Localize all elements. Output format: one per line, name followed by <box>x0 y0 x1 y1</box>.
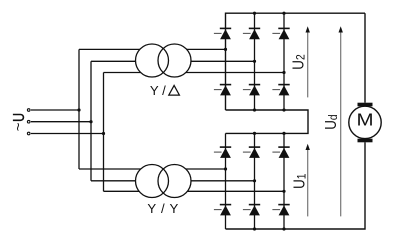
junction dot bb top rail leg3 <box>282 132 285 135</box>
input terminal L3 <box>27 132 30 135</box>
label ~U (AC supply voltage, rotated) <box>10 115 27 132</box>
diode D7 lower bridge leg1 top <box>214 147 231 158</box>
junction dot bb bottom rail leg2 <box>253 227 256 230</box>
junction dot bus2/feed2 <box>89 120 92 123</box>
diode D10 lower bridge leg1 bottom <box>214 205 231 216</box>
wire phase 2 to lower bridge <box>91 180 255 182</box>
junction dot phase2/leg2 lower bridge <box>253 179 256 182</box>
transformer T2 (Y/Y) <box>136 165 192 198</box>
label Y/delta <box>150 83 180 98</box>
junction dot top rail leg2 <box>253 12 256 15</box>
wire bottom rail of upper bridge + jog + top rail of lower bridge <box>226 110 309 133</box>
svg-text:~: ~ <box>10 122 27 131</box>
wire feed L2 <box>31 121 91 123</box>
voltage arrow U2 <box>306 26 310 97</box>
diode D8 lower bridge leg3 bottom <box>272 205 289 216</box>
junction dot top rail leg3 <box>282 12 285 15</box>
junction dot phase3/leg3 lower bridge <box>282 190 285 193</box>
wire feed L3 <box>31 133 104 135</box>
motor M <box>349 103 381 143</box>
junction dot bus3/feed3 <box>102 132 105 135</box>
voltage arrow Ud <box>339 26 343 216</box>
junction dot phase2/leg2 upper bridge <box>253 60 256 63</box>
input terminal L2 <box>27 120 30 123</box>
wire bottom rail of lower bridge to motor <box>226 142 366 229</box>
diode D4 upper bridge leg1 bottom <box>214 85 231 96</box>
voltage arrow U1 <box>306 144 310 217</box>
junction dot tb bottom rail leg2 <box>253 108 256 111</box>
diode D6 upper bridge leg2 bottom <box>243 85 260 96</box>
wire phase 1 to lower bridge <box>79 168 226 170</box>
wire bus phase 3 vertical <box>103 73 105 192</box>
junction dot phase1/leg1 lower bridge <box>224 167 227 170</box>
wire bus phase 1 vertical <box>78 49 80 169</box>
wire leg 2 lower bridge <box>254 133 256 229</box>
junction dot bus1/feed1 <box>77 108 80 111</box>
junction dot phase1/leg1 upper bridge <box>224 48 227 51</box>
svg-text:Y /: Y / <box>150 83 166 98</box>
wire feed L1 <box>31 109 79 111</box>
diode D12 lower bridge leg2 bottom <box>243 205 260 216</box>
wire bus phase 2 vertical <box>90 61 92 181</box>
wire phase 3 to upper bridge <box>104 72 285 74</box>
wire motor top feed <box>364 13 366 103</box>
junction dot tb bottom rail leg3 <box>282 108 285 111</box>
wire leg 3 upper bridge <box>283 13 285 110</box>
junction dot phase3/leg3 upper bridge <box>282 71 285 74</box>
wire leg 1 lower bridge <box>225 133 227 229</box>
diode D2 upper bridge leg3 bottom <box>272 85 289 96</box>
svg-text:Y / Y: Y / Y <box>147 201 179 216</box>
wire phase 2 to upper bridge <box>91 60 255 62</box>
diode D5 upper bridge leg3 top <box>272 28 289 39</box>
wire leg 2 upper bridge <box>254 13 256 110</box>
diode D9 lower bridge leg2 top <box>243 147 260 158</box>
diode D3 upper bridge leg2 top <box>243 28 260 39</box>
junction dot bb top rail leg2 <box>253 132 256 135</box>
diode D1 upper bridge leg1 top <box>214 28 231 39</box>
svg-text:M: M <box>356 111 373 130</box>
wire leg 3 lower bridge <box>283 133 285 229</box>
wire phase 3 to lower bridge <box>104 190 285 192</box>
input terminal L1 <box>27 109 30 112</box>
diode D11 lower bridge leg3 top <box>272 147 289 158</box>
wire top rail of upper bridge <box>226 13 366 110</box>
junction dot bb bottom rail leg3 <box>282 227 285 230</box>
wire phase 1 to upper bridge <box>79 48 226 50</box>
transformer T1 (Y/Delta) <box>136 44 192 77</box>
